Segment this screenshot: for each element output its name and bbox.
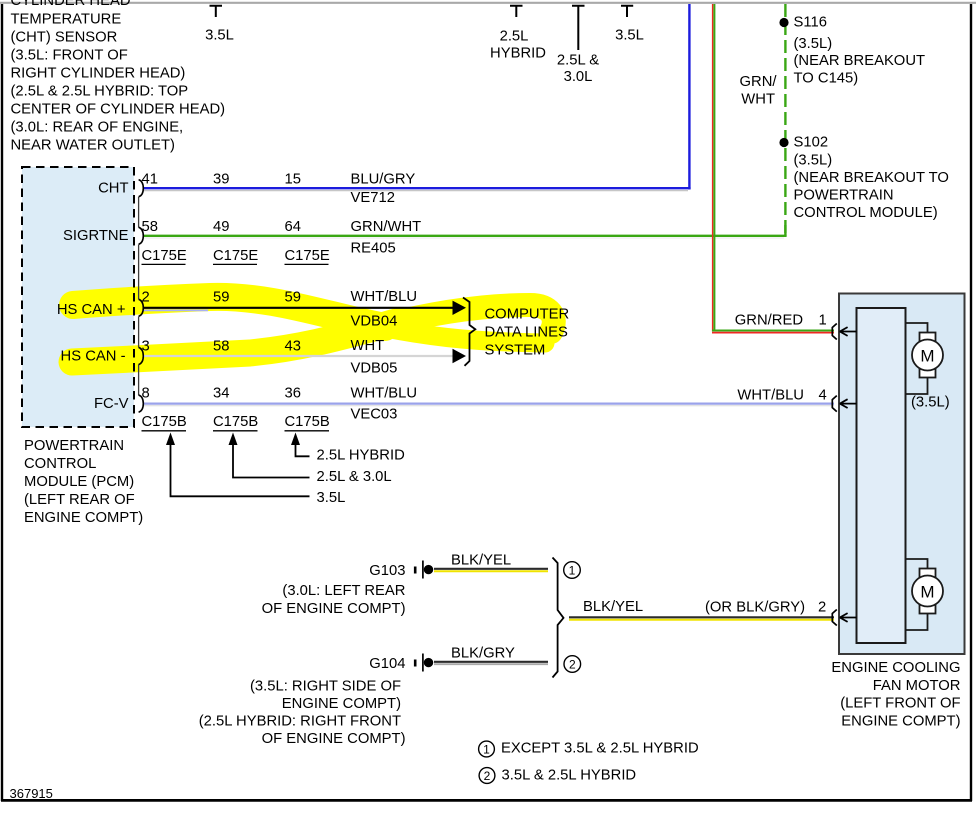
highlighter stroke over HS CAN - row xyxy=(72,305,554,362)
underline C175E column 2 xyxy=(213,263,257,265)
pin numbers row FC-V xyxy=(142,386,301,402)
svg-text:CONTROL MODULE): CONTROL MODULE) xyxy=(794,205,938,221)
node S102 xyxy=(779,138,788,147)
svg-text:49: 49 xyxy=(213,219,229,235)
label PCM pin CHT xyxy=(98,181,128,197)
svg-text:(LEFT FRONT OF: (LEFT FRONT OF xyxy=(840,696,960,712)
label WHT/BLU pin 4 xyxy=(737,388,826,404)
svg-text:ENGINE COMPT): ENGINE COMPT) xyxy=(282,696,401,712)
svg-text:(3.5L): (3.5L) xyxy=(794,153,833,169)
wire BLK/YEL from G103 xyxy=(434,569,548,571)
svg-text:(3.0L: REAR OF ENGINE,: (3.0L: REAR OF ENGINE, xyxy=(11,120,184,136)
svg-text:(3.5L: FRONT OF: (3.5L: FRONT OF xyxy=(11,48,128,64)
svg-text:POWERTRAIN: POWERTRAIN xyxy=(794,188,894,204)
svg-text:ENGINE COOLING: ENGINE COOLING xyxy=(831,660,960,676)
svg-text:RE405: RE405 xyxy=(351,241,396,257)
wire label BLK/GRY G104 xyxy=(451,646,515,662)
svg-text:2: 2 xyxy=(142,290,150,306)
svg-text:59: 59 xyxy=(213,290,229,306)
svg-text:43: 43 xyxy=(285,339,301,355)
wire label WHT/BLU (VDB04) xyxy=(351,289,418,305)
fan pin bracket 1 xyxy=(832,324,837,340)
svg-text:SIGRTNE: SIGRTNE xyxy=(63,228,129,244)
svg-text:BLK/YEL: BLK/YEL xyxy=(451,553,511,569)
label G103 xyxy=(369,563,405,579)
wire WHT/BLU VDB04 (HS CAN +) black annotated line xyxy=(143,308,454,311)
motor M2 xyxy=(912,569,943,614)
pin numbers row CHT xyxy=(142,172,301,188)
motor M1 xyxy=(912,333,943,378)
arrow to computer data lines (HS CAN +) xyxy=(453,301,467,315)
svg-text:1: 1 xyxy=(569,564,576,578)
svg-text:3.0L: 3.0L xyxy=(564,69,593,85)
svg-text:HYBRID: HYBRID xyxy=(490,46,546,62)
motor 1 wiring xyxy=(906,323,928,394)
wire label BLK/YEL G103 xyxy=(451,553,511,569)
node S116 xyxy=(779,18,788,27)
brace grounds xyxy=(553,558,564,678)
circled note 2 at brace xyxy=(564,656,581,673)
svg-text:34: 34 xyxy=(213,386,229,402)
C175B arrow 2.5L HYBRID xyxy=(291,433,310,457)
svg-text:2: 2 xyxy=(569,658,576,672)
brace computer data lines xyxy=(463,298,475,366)
svg-text:WHT/BLU: WHT/BLU xyxy=(351,386,418,402)
wire label WHT xyxy=(351,338,385,354)
page left border xyxy=(1,4,3,801)
svg-text:(CHT) SENSOR: (CHT) SENSOR xyxy=(11,30,118,46)
wire BLU/GRY VE712 (CHT) gray stripe xyxy=(143,190,688,192)
label G104 xyxy=(369,656,405,672)
svg-text:C175B: C175B xyxy=(142,414,187,430)
svg-text:36: 36 xyxy=(285,386,301,402)
wire BLU/GRY vertical to top xyxy=(688,4,690,189)
svg-text:TEMPERATURE: TEMPERATURE xyxy=(11,12,122,28)
svg-text:TO C145): TO C145) xyxy=(794,71,859,87)
pin numbers row SIGRTNE xyxy=(142,219,301,235)
wire stub 2.5L HYBRID xyxy=(510,6,523,17)
PCM pin bracket CHT pin 41 xyxy=(139,180,144,197)
label 2.5L HYBRID arrow xyxy=(317,448,405,464)
label stub 2.5L & 3.0L xyxy=(557,53,599,86)
svg-text:2.5L &: 2.5L & xyxy=(557,53,599,69)
label engine cooling fan motor xyxy=(831,660,960,730)
svg-text:ENGINE COMPT): ENGINE COMPT) xyxy=(24,510,143,526)
wire label GRN/WHT xyxy=(351,219,422,235)
label GRN/WHT vertical wire xyxy=(740,74,778,108)
wire BLU/GRY VE712 (CHT) horizontal xyxy=(143,187,691,189)
svg-text:59: 59 xyxy=(285,290,301,306)
underline C175E column 1 xyxy=(142,263,186,265)
svg-text:3.5L: 3.5L xyxy=(317,490,346,506)
svg-text:C175E: C175E xyxy=(213,248,258,264)
fan pin bracket 2 xyxy=(832,610,837,626)
wire label VEC03 xyxy=(351,407,398,423)
wire label VDB05 xyxy=(351,361,398,377)
svg-text:MODULE (PCM): MODULE (PCM) xyxy=(24,474,134,490)
svg-text:(LEFT REAR OF: (LEFT REAR OF xyxy=(24,492,135,508)
wire label BLK/YEL pin 2 xyxy=(583,599,643,615)
svg-text:COMPUTER: COMPUTER xyxy=(485,307,570,323)
svg-text:NEAR WATER OUTLET): NEAR WATER OUTLET) xyxy=(11,138,175,154)
wire WHT VDB05 (HS CAN -) xyxy=(143,355,454,357)
svg-text:2: 2 xyxy=(818,600,826,616)
svg-text:58: 58 xyxy=(142,219,158,235)
svg-text:GRN/WHT: GRN/WHT xyxy=(351,219,422,235)
label powertrain control module xyxy=(24,438,143,526)
wire label VE712 xyxy=(351,190,395,206)
svg-text:C175B: C175B xyxy=(213,414,258,430)
wire label BLU/GRY xyxy=(351,172,416,188)
svg-text:FAN MOTOR: FAN MOTOR xyxy=(873,678,961,694)
svg-text:G104: G104 xyxy=(369,656,405,672)
svg-text:15: 15 xyxy=(285,172,301,188)
svg-text:41: 41 xyxy=(142,172,158,188)
wire label RE405 xyxy=(351,241,396,257)
underline C175E column 3 xyxy=(285,263,329,265)
label GRN/RED pin 1 xyxy=(735,313,827,329)
svg-text:(3.0L: LEFT REAR: (3.0L: LEFT REAR xyxy=(282,583,405,599)
fan motor inner connector rect xyxy=(857,308,906,643)
svg-text:4: 4 xyxy=(819,388,827,404)
svg-text:FC-V: FC-V xyxy=(94,396,129,412)
label 3.5L arrow xyxy=(317,490,346,506)
svg-text:M: M xyxy=(920,582,934,601)
svg-text:8: 8 xyxy=(142,386,150,402)
svg-text:BLK/YEL: BLK/YEL xyxy=(583,599,643,615)
svg-text:(3.5L: RIGHT SIDE OF: (3.5L: RIGHT SIDE OF xyxy=(250,679,401,695)
wire WHT/BLU VEC03 (FC-V) xyxy=(143,404,834,406)
ground G104 symbol xyxy=(415,654,433,672)
svg-text:(2.5L HYBRID: RIGHT FRONT: (2.5L HYBRID: RIGHT FRONT xyxy=(199,714,401,730)
PCM pin bracket SIGRTNE pin 58 xyxy=(139,227,144,244)
svg-text:2: 2 xyxy=(484,769,491,783)
label S102 xyxy=(794,135,949,222)
fan pin arrow 4 xyxy=(839,399,856,408)
underline C175B column 1 xyxy=(142,430,187,432)
svg-text:2.5L: 2.5L xyxy=(500,29,529,45)
C175B arrow 2.5L & 3.0L xyxy=(229,433,310,478)
svg-text:3.5L: 3.5L xyxy=(205,28,234,44)
svg-text:CYLINDER HEAD: CYLINDER HEAD xyxy=(11,0,131,9)
connector labels C175B xyxy=(142,414,330,430)
svg-text:WHT: WHT xyxy=(741,92,775,108)
wire GRN/RED vertical xyxy=(713,4,715,332)
page bottom border xyxy=(1,799,972,802)
wire label (OR BLK/GRY) pin 2 xyxy=(705,600,826,616)
wire label WHT/BLU (VEC03) xyxy=(351,386,418,402)
PCM pin bracket FC-V pin 8 xyxy=(139,395,144,412)
svg-text:VEC03: VEC03 xyxy=(351,407,398,423)
circled note 1 legend xyxy=(479,741,495,757)
label PCM pin FC-V xyxy=(94,396,129,412)
wire stub 3.5L (second) xyxy=(621,6,633,17)
underline C175B column 3 xyxy=(285,430,330,432)
svg-text:VDB05: VDB05 xyxy=(351,361,398,377)
svg-text:CONTROL: CONTROL xyxy=(24,456,96,472)
svg-text:CHT: CHT xyxy=(98,181,128,197)
underline C175B column 2 xyxy=(213,430,258,432)
svg-text:HS CAN +: HS CAN + xyxy=(57,302,126,318)
label figure number 367915 xyxy=(10,786,53,801)
svg-text:G103: G103 xyxy=(369,563,405,579)
fan pin bracket 4 xyxy=(832,396,837,412)
wire stub 2.5L & 3.0L xyxy=(572,6,585,50)
motor 2 wiring xyxy=(906,559,928,630)
page right border xyxy=(970,4,972,801)
fan motor outer box xyxy=(839,294,965,655)
wire BLK/YEL to fan pin 2 xyxy=(569,617,834,619)
svg-text:VDB04: VDB04 xyxy=(351,314,398,330)
circled note 2 legend xyxy=(479,768,495,784)
svg-text:(3.5L): (3.5L) xyxy=(911,395,950,411)
svg-text:EXCEPT 3.5L & 2.5L HYBRID: EXCEPT 3.5L & 2.5L HYBRID xyxy=(501,741,699,757)
arrow to computer data lines (HS CAN -) xyxy=(453,349,467,363)
svg-text:WHT: WHT xyxy=(351,338,385,354)
svg-text:367915: 367915 xyxy=(10,786,53,801)
highlighter stroke over HS CAN + row xyxy=(73,297,545,343)
svg-text:1: 1 xyxy=(483,743,490,757)
fan pin arrow 1 xyxy=(839,327,856,336)
wire label VDB04 xyxy=(351,314,398,330)
PCM dashed border xyxy=(22,167,134,427)
label G104 location xyxy=(199,679,406,748)
connector labels C175E xyxy=(142,248,330,264)
svg-text:HS CAN -: HS CAN - xyxy=(61,349,126,365)
svg-text:DATA LINES: DATA LINES xyxy=(485,325,568,341)
label CHT sensor description xyxy=(11,0,226,153)
svg-text:C175E: C175E xyxy=(142,248,187,264)
svg-text:S116: S116 xyxy=(794,15,827,31)
svg-text:RIGHT CYLINDER HEAD): RIGHT CYLINDER HEAD) xyxy=(11,66,186,82)
circled note 1 at brace xyxy=(564,562,581,579)
C175B arrow 3.5L xyxy=(166,433,310,497)
label stub 2.5L HYBRID xyxy=(490,29,546,62)
note 2 text xyxy=(502,768,637,784)
svg-text:3: 3 xyxy=(142,339,150,355)
wire BLK/GRY from G104 xyxy=(434,662,548,664)
svg-text:64: 64 xyxy=(285,219,301,235)
label PCM pin SIGRTNE xyxy=(63,228,129,244)
svg-text:(3.5L): (3.5L) xyxy=(794,36,833,52)
svg-text:ENGINE COMPT): ENGINE COMPT) xyxy=(841,714,960,730)
label PCM pin HS CAN - xyxy=(61,349,126,365)
wire stub 3.5L (top left) xyxy=(210,6,223,17)
wire GRN/WHT RE405 (SIGRTNE) horizontal xyxy=(143,236,787,238)
svg-text:CENTER OF CYLINDER HEAD): CENTER OF CYLINDER HEAD) xyxy=(11,102,226,118)
svg-text:2.5L & 3.0L: 2.5L & 3.0L xyxy=(317,469,392,485)
svg-text:BLU/GRY: BLU/GRY xyxy=(351,172,416,188)
label 2.5L & 3.0L arrow xyxy=(317,469,392,485)
svg-text:(2.5L & 2.5L HYBRID: TOP: (2.5L & 2.5L HYBRID: TOP xyxy=(11,84,189,100)
svg-text:SYSTEM: SYSTEM xyxy=(485,343,546,359)
svg-text:GRN/: GRN/ xyxy=(740,74,778,90)
ground G103 symbol xyxy=(415,561,433,579)
PCM pin bracket HS CAN + pin 2 xyxy=(139,299,144,316)
label computer data lines system xyxy=(485,307,570,359)
wire GRN/RED horizontal to fan pin 1 xyxy=(712,331,834,333)
svg-text:2.5L HYBRID: 2.5L HYBRID xyxy=(317,448,405,464)
label (3.5L) motor xyxy=(911,395,950,411)
svg-text:GRN/RED: GRN/RED xyxy=(735,313,803,329)
svg-text:S102: S102 xyxy=(794,135,829,151)
svg-text:(OR BLK/GRY): (OR BLK/GRY) xyxy=(705,600,805,616)
fan pin arrow 2 xyxy=(839,613,856,622)
svg-text:M: M xyxy=(920,346,934,365)
svg-text:3.5L & 2.5L HYBRID: 3.5L & 2.5L HYBRID xyxy=(502,768,637,784)
svg-text:(NEAR BREAKOUT TO: (NEAR BREAKOUT TO xyxy=(794,170,949,186)
PCM module box fill xyxy=(22,167,134,427)
PCM pin chain line xyxy=(138,197,140,395)
svg-text:VE712: VE712 xyxy=(351,190,395,206)
label G103 location xyxy=(262,583,406,617)
svg-text:BLK/GRY: BLK/GRY xyxy=(451,646,515,662)
svg-text:39: 39 xyxy=(213,172,229,188)
svg-text:POWERTRAIN: POWERTRAIN xyxy=(24,438,124,454)
pin numbers row HS CAN + xyxy=(142,290,301,306)
svg-text:58: 58 xyxy=(213,339,229,355)
label S116 xyxy=(794,15,926,87)
svg-text:WHT/BLU: WHT/BLU xyxy=(351,289,418,305)
label stub 3.5L left xyxy=(205,28,234,44)
svg-text:WHT/BLU: WHT/BLU xyxy=(737,388,804,404)
svg-text:3.5L: 3.5L xyxy=(615,28,644,44)
page top separator xyxy=(0,2,976,4)
svg-text:OF ENGINE COMPT): OF ENGINE COMPT) xyxy=(262,731,406,747)
PCM pin bracket HS CAN - pin 3 xyxy=(139,347,144,364)
svg-text:1: 1 xyxy=(819,313,827,329)
label PCM pin HS CAN + xyxy=(57,302,126,318)
note 1 text xyxy=(501,741,699,757)
wire GRN/WHT dashed vertical to top xyxy=(784,4,786,236)
svg-text:C175E: C175E xyxy=(285,248,330,264)
svg-text:(NEAR BREAKOUT: (NEAR BREAKOUT xyxy=(794,53,926,69)
pin numbers row HS CAN - xyxy=(142,339,301,355)
label stub 3.5L second xyxy=(615,28,644,44)
svg-text:OF ENGINE COMPT): OF ENGINE COMPT) xyxy=(262,601,406,617)
svg-text:C175B: C175B xyxy=(285,414,330,430)
